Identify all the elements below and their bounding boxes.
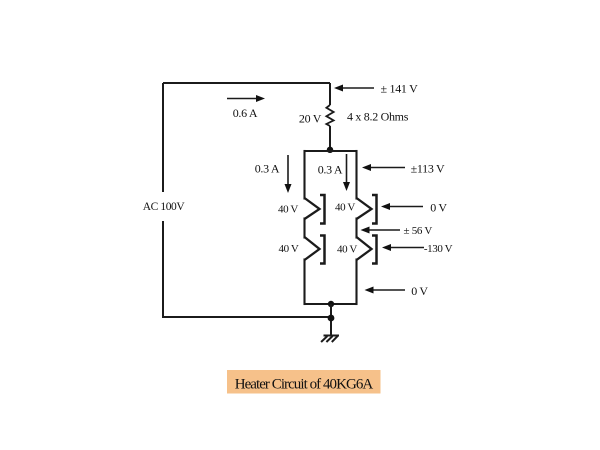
wire: left branch bottom segment — [303, 260, 305, 305]
svg-text:40 V: 40 V — [279, 243, 299, 255]
wire: from top corner down to resistor top — [329, 83, 331, 105]
heater filament H3 (lower-left, 40 V) — [305, 237, 320, 260]
wire: box bottom to ground junction — [330, 304, 332, 335]
node: junction dot at bottom of heater box — [328, 301, 334, 307]
cathode bracket of H3 — [320, 236, 325, 264]
arrow: 0.3 A right branch (points down) — [343, 154, 350, 191]
wire: bottom horizontal from left loop to ground junction — [163, 316, 331, 318]
cathode bracket of H4 — [372, 236, 377, 264]
wire: right branch middle segment (+-56 V node) — [355, 219, 357, 238]
svg-text:0.6 A: 0.6 A — [233, 106, 258, 120]
arrow: points to -130 V cathode (lower) — [382, 244, 424, 251]
svg-text:AC 100V: AC 100V — [143, 201, 186, 213]
svg-text:40 V: 40 V — [335, 202, 355, 214]
arrow: 0.3 A left branch (points down) — [285, 155, 292, 193]
arrow: points to +-113 V node — [362, 164, 405, 171]
svg-text:4 x 8.2 Ohms: 4 x 8.2 Ohms — [347, 110, 409, 124]
wire: heater box top — [305, 150, 357, 152]
wire: heater box bottom — [305, 303, 357, 305]
svg-text:0.3 A: 0.3 A — [318, 163, 343, 177]
wire: right branch top segment — [355, 151, 357, 199]
resistor R (4 x 8.2 Ohms, 20 V drop) — [326, 105, 333, 126]
svg-text:± 141 V: ± 141 V — [381, 82, 419, 96]
heater filament H1 (upper-left, 40 V) — [305, 198, 320, 219]
wire: left branch top segment — [303, 151, 305, 199]
svg-text:± 56 V: ± 56 V — [404, 225, 433, 237]
wire: right branch bottom segment — [355, 260, 357, 305]
svg-text:40 V: 40 V — [337, 244, 357, 256]
node: junction dot where bottom wire meets ground stem — [328, 315, 335, 322]
svg-text:Heater Circuit of 40KG6A: Heater Circuit of 40KG6A — [235, 377, 374, 393]
svg-text:0 V: 0 V — [430, 201, 447, 215]
label: AC 100V on white gap of left wire — [141, 195, 186, 214]
svg-text:0.3 A: 0.3 A — [255, 162, 280, 176]
wire: left vertical of AC loop (lower part below AC 100V label) — [162, 221, 164, 318]
cathode bracket of H2 — [372, 195, 377, 224]
svg-text:20 V: 20 V — [299, 112, 322, 126]
ground symbol — [321, 336, 339, 343]
wire: resistor bottom to box-top node — [329, 126, 331, 151]
node: junction dot at top of heater box — [327, 147, 333, 153]
svg-text:40 V: 40 V — [278, 204, 298, 216]
arrow: 0.6 A current direction (points right) — [227, 95, 265, 102]
arrow: points to 0 V cathode (upper) — [381, 203, 423, 210]
wire: left branch middle segment — [303, 219, 305, 238]
wire: top horizontal from left loop corner to resistor corner — [163, 82, 330, 84]
title box: Heater Circuit of 40KG6A — [227, 370, 381, 394]
svg-text:0 V: 0 V — [411, 284, 428, 298]
heater filament H2 (upper-right, 40 V) — [357, 198, 372, 219]
svg-text:±113 V: ±113 V — [411, 162, 445, 176]
heater filament H4 (lower-right, 40 V) — [357, 237, 372, 260]
cathode bracket of H1 — [320, 195, 325, 224]
svg-text:-130 V: -130 V — [424, 243, 453, 255]
arrow: points to 0 V bottom node — [365, 287, 406, 294]
arrow: points to +-141 V node — [334, 85, 374, 92]
arrow: points to +-56 V node — [361, 227, 401, 234]
wire: left vertical of AC loop (upper part above AC 100V label) — [162, 83, 164, 192]
